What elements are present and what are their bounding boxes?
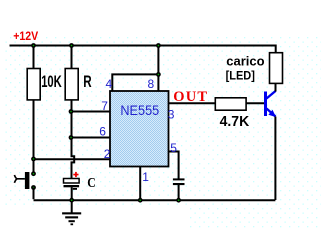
- capacitor C1 C electrolytic: [64, 172, 96, 200]
- pin 3 label: [168, 108, 175, 122]
- svg-text:carico: carico: [226, 54, 264, 69]
- svg-text:8: 8: [148, 77, 155, 91]
- svg-text:4: 4: [106, 77, 113, 91]
- op-amp U1 NE555 body: [110, 91, 169, 167]
- pin 8 label: [148, 77, 155, 91]
- transistor Q1: [264, 91, 276, 117]
- wire pin 3 output: [169, 102, 216, 104]
- wire pin8 vertical from rail: [157, 46, 159, 92]
- svg-text:R: R: [83, 73, 91, 91]
- svg-text:1: 1: [142, 170, 149, 184]
- wire button bottom to bottom rail: [33, 188, 35, 200]
- resistor R4 carico LED: [226, 53, 283, 84]
- wire pin4 branch connector: [112, 74, 158, 91]
- wire 10K top lead: [33, 46, 35, 70]
- svg-text:4.7K: 4.7K: [220, 114, 250, 130]
- svg-text:C: C: [87, 176, 96, 191]
- wire emitter lead: [274, 117, 276, 201]
- capacitor C2 on pin5: [173, 178, 185, 200]
- ground: [62, 200, 81, 225]
- wire +12V rail: [10, 46, 276, 54]
- wire pin 6: [71, 137, 110, 139]
- svg-text:OUT: OUT: [173, 89, 207, 105]
- resistor R1 10K: [27, 69, 62, 100]
- svg-text:5: 5: [170, 141, 177, 155]
- svg-text:2: 2: [104, 147, 111, 161]
- wire 10K bottom lead to pin2 node and button: [33, 100, 35, 174]
- node +12V label: [13, 29, 38, 43]
- pushbutton P1: [14, 171, 36, 190]
- svg-text:3: 3: [168, 108, 175, 122]
- svg-text:10K: 10K: [41, 73, 62, 91]
- wire base lead: [246, 102, 264, 104]
- wire pin 2: [34, 158, 111, 160]
- wire pin 7: [71, 111, 110, 113]
- svg-text:+12V: +12V: [13, 29, 38, 43]
- wire pin 5: [169, 152, 179, 179]
- svg-text:7: 7: [101, 99, 108, 113]
- resistor R2 R: [65, 69, 91, 100]
- svg-text:6: 6: [99, 124, 106, 138]
- svg-text:[LED]: [LED]: [226, 68, 255, 82]
- pin 4 label: [106, 77, 113, 91]
- wire bottom rail: [34, 199, 276, 201]
- wire R bottom lead down to capacitor C with crossover jog at pin2 wire: [72, 100, 75, 179]
- wire pin 1: [139, 167, 141, 201]
- pin 1 label: [142, 170, 149, 184]
- resistor R3 4.7K: [215, 98, 249, 130]
- wire R top lead: [71, 46, 73, 70]
- node OUT label: [173, 89, 207, 105]
- pin 7 label: [101, 99, 108, 113]
- svg-text:NE555: NE555: [120, 102, 159, 118]
- pin 6 label: [99, 124, 106, 138]
- pin 5 label: [170, 141, 177, 155]
- wire collector lead: [275, 83, 277, 91]
- pin 2 label: [104, 147, 111, 161]
